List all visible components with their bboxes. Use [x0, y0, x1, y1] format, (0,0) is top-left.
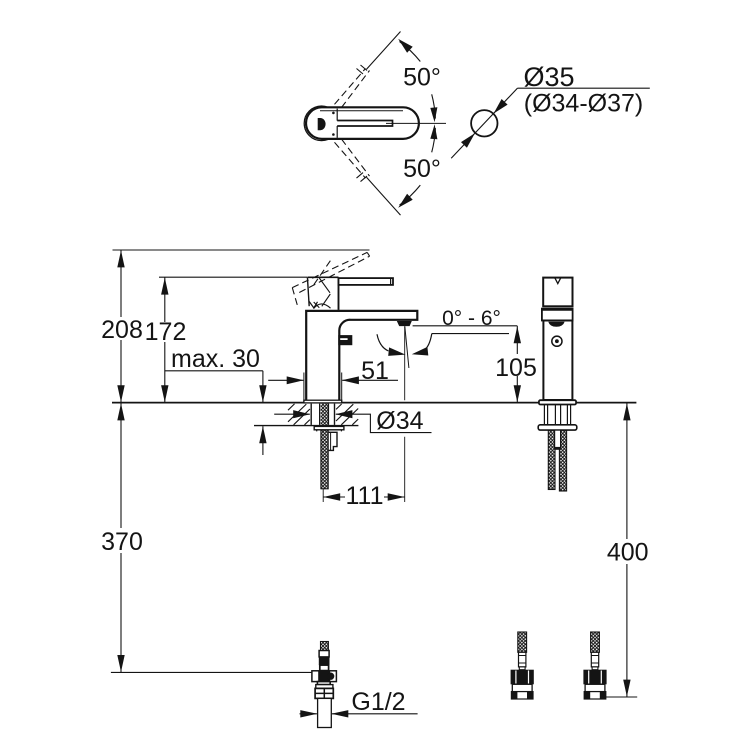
51 arrow left [268, 379, 303, 381]
max30 leader line [165, 370, 263, 372]
172 reference line [159, 276, 307, 278]
0-6 reference line A [413, 325, 518, 327]
svg-text:400: 400 [607, 539, 649, 567]
side hose left [548, 430, 555, 489]
shank walls in hole [311, 404, 334, 425]
G1/2 dim arrows [300, 713, 317, 715]
svg-text:Ø34: Ø34 [376, 407, 423, 435]
swivel arc left [377, 334, 389, 351]
G1/2 connector braid [321, 642, 329, 651]
threaded shank braid in hole [321, 404, 329, 425]
d35 arrow upper [494, 99, 508, 114]
dashed lever rotated down [335, 139, 370, 178]
side connector right [583, 632, 606, 699]
svg-text:370: 370 [101, 528, 143, 556]
side handle [543, 278, 572, 307]
lever pill outline (top view) [306, 107, 419, 139]
d35 leader line [517, 87, 649, 89]
svg-text:50°: 50° [403, 64, 441, 92]
G1/2 stem [317, 682, 330, 685]
208 dimension line [120, 250, 122, 403]
arrowhead lower arc end [430, 124, 437, 139]
d34 arrow right + leader [336, 414, 432, 432]
base plinth front [304, 400, 342, 403]
370 dimension line [120, 403, 122, 672]
svg-text:172: 172 [145, 318, 187, 346]
lever bar front [339, 278, 394, 285]
105 dimension line [516, 326, 518, 403]
svg-text:105: 105 [495, 354, 537, 382]
G1/2 pipe [318, 698, 332, 727]
51 arrow right [342, 379, 398, 381]
tick marks lower [357, 173, 368, 182]
side spout outlet [548, 322, 564, 327]
d35 diagonal dimension line [451, 88, 517, 158]
arrowhead upper line [398, 39, 413, 53]
400 reference line bottom [604, 696, 638, 698]
G1/2 band [316, 685, 333, 689]
side horseshoe washer [538, 425, 577, 430]
supply hose front (upper) [321, 430, 328, 489]
aerator front [397, 321, 412, 326]
51 extension line left [303, 373, 305, 403]
base circle d35 [471, 110, 497, 136]
50deg line lower [367, 177, 401, 215]
deck hatch right [336, 404, 358, 425]
G1/2 neck [320, 665, 329, 671]
side hose right [559, 430, 566, 491]
G1/2 nut [312, 671, 337, 682]
side body [543, 321, 572, 401]
172 dimension line [164, 277, 166, 402]
side stud [555, 430, 561, 447]
cartridge block front [307, 277, 338, 310]
svg-text:Ø35: Ø35 [523, 62, 574, 92]
lever dot top [332, 112, 335, 115]
side cartridge band [542, 309, 573, 321]
handle cap circle (top view) [304, 106, 339, 141]
side bracket [544, 405, 570, 425]
arrowhead upper arc end [430, 107, 437, 122]
max30 up arrow below deck [262, 426, 264, 455]
logo plate [338, 335, 352, 345]
side connector left [511, 632, 534, 699]
svg-text:111: 111 [345, 482, 383, 510]
max30 right extension [262, 371, 264, 402]
arrowhead lower line [398, 194, 413, 208]
aerator centerline [404, 326, 406, 502]
side base flange [539, 400, 576, 404]
G1/2 thread [315, 688, 333, 698]
G1/2 collar [319, 651, 329, 657]
lever joint line [336, 109, 338, 138]
50deg line upper [367, 32, 401, 70]
lever dot bottom [332, 133, 335, 136]
d34 arrow left [274, 413, 310, 415]
dashed raised lever front [292, 252, 369, 306]
svg-text:50°: 50° [403, 155, 441, 183]
svg-text:(Ø34-Ø37): (Ø34-Ø37) [524, 90, 643, 118]
d35 arrow lower [461, 133, 475, 148]
svg-text:max. 30: max. 30 [171, 345, 260, 373]
svg-text:0° - 6°: 0° - 6° [442, 307, 501, 330]
mounting nut front [329, 432, 337, 450]
centerline to circle [386, 122, 446, 124]
lever inner top line [320, 110, 403, 112]
svg-text:51: 51 [361, 357, 389, 385]
svg-text:208: 208 [101, 316, 143, 344]
50deg arc lower [400, 128, 436, 205]
208 reference line top [113, 249, 370, 251]
side screw [552, 336, 562, 346]
111 dimension line [323, 496, 405, 498]
deck hatch left [288, 404, 310, 425]
0-6 reference line B [432, 333, 509, 335]
400 dimension line [626, 403, 628, 697]
deck line [112, 402, 636, 404]
dashed lever rotated up [335, 69, 370, 108]
washer front [314, 426, 344, 429]
51 extension line right [341, 373, 343, 403]
lever slot [337, 121, 392, 127]
svg-text:G1/2: G1/2 [351, 688, 405, 716]
50deg arc upper [400, 42, 436, 119]
faucet body front [306, 311, 417, 401]
swivel arc right [424, 334, 432, 351]
side handle notch [555, 278, 561, 284]
tick marks upper [357, 65, 368, 74]
deck cross-section bottom line [254, 425, 358, 427]
lever logo blob [318, 118, 326, 130]
hose centerline [322, 489, 324, 502]
370 reference line bottom [111, 671, 312, 673]
spout tilted axis 6deg [405, 326, 409, 368]
G1/2 crimp [319, 657, 330, 665]
